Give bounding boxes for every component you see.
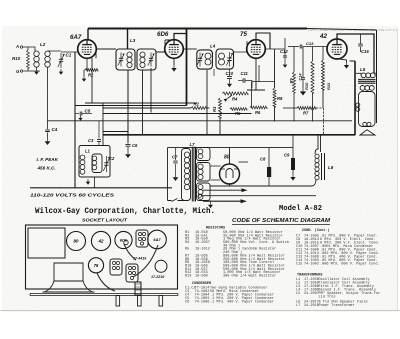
svg-text:C11: C11	[241, 71, 249, 76]
svg-text:C7: C7	[172, 155, 178, 160]
svg-text:TRANSFORMERS: TRANSFORMERS	[297, 273, 323, 277]
svg-text:R1: R1	[88, 73, 94, 78]
svg-text:L1: L1	[85, 149, 91, 154]
svg-text:C3: C3	[88, 138, 94, 143]
svg-text:456 K.C.: 456 K.C.	[37, 166, 56, 171]
svg-text:R2: R2	[194, 102, 200, 107]
svg-text:18-1012: 18-1012	[195, 248, 210, 252]
svg-text:COND. (Cont.): COND. (Cont.)	[302, 228, 330, 233]
svg-text:R13: R13	[185, 275, 191, 279]
svg-text:R7: R7	[303, 111, 309, 116]
svg-text:C6: C6	[185, 301, 189, 305]
svg-text:L5: L5	[360, 67, 366, 72]
svg-text:C16: C16	[361, 49, 369, 54]
svg-text:SOCKET LAYOUT: SOCKET LAYOUT	[82, 218, 128, 223]
svg-text:L6: L6	[328, 165, 334, 170]
svg-text:C13: C13	[306, 41, 314, 46]
svg-text:18-2057: 18-2057	[195, 241, 210, 245]
svg-text:300 Ohm 1/4 Watt Resistor: 300 Ohm 1/4 Watt Resistor	[223, 274, 276, 279]
svg-text:Wilcox-Gay Corporation, Charlo: Wilcox-Gay Corporation, Charlotte, Mich.	[35, 208, 215, 216]
svg-text:R11: R11	[326, 82, 331, 90]
svg-text:24-2007: 24-2007	[304, 292, 319, 296]
svg-text:R10: R10	[12, 56, 21, 61]
svg-text:C15: C15	[296, 263, 302, 267]
svg-text:42: 42	[98, 239, 104, 244]
svg-text:80: 80	[74, 239, 79, 244]
svg-text:C6: C6	[132, 143, 138, 148]
svg-text:80: 80	[224, 155, 230, 161]
svg-text:6D6: 6D6	[157, 31, 169, 38]
svg-text:Lid Trns: Lid Trns	[319, 294, 336, 299]
svg-text:R4: R4	[185, 241, 189, 245]
svg-text:RESISTORS: RESISTORS	[206, 227, 226, 231]
svg-text:C1: C1	[66, 53, 72, 58]
svg-text:Power Transformer: Power Transformer	[319, 303, 355, 308]
svg-text:74-1006: 74-1006	[195, 301, 210, 305]
svg-text:R10: R10	[304, 82, 309, 90]
svg-text:A: A	[15, 44, 19, 49]
svg-text:L2: L2	[40, 42, 46, 47]
svg-text:75: 75	[94, 263, 99, 268]
svg-text:L7: L7	[296, 304, 300, 308]
svg-text:110-120 VOLTS 60 CYCLES: 110-120 VOLTS 60 CYCLES	[30, 193, 115, 198]
svg-text:I. F. PEAK: I. F. PEAK	[37, 157, 59, 162]
svg-text:R3: R3	[212, 106, 217, 112]
svg-text:24-2018: 24-2018	[304, 304, 319, 308]
svg-text:42: 42	[319, 33, 327, 40]
svg-text:R9: R9	[289, 78, 294, 84]
svg-text:L3: L3	[130, 38, 136, 43]
svg-text:C9: C9	[284, 153, 290, 158]
svg-text:.1 Mfd. 400 V. Paper Condenser: .1 Mfd. 400 V. Paper Condenser	[210, 300, 274, 305]
svg-text:R5: R5	[185, 248, 189, 252]
svg-text:C5: C5	[85, 109, 91, 114]
svg-text:C14: C14	[299, 73, 303, 81]
svg-text:C2: C2	[109, 156, 115, 161]
svg-text:R6: R6	[255, 110, 261, 115]
svg-text:C4: C4	[52, 127, 58, 132]
svg-text:6A7: 6A7	[153, 237, 161, 242]
svg-text:L5: L5	[296, 292, 300, 296]
svg-text:R8: R8	[277, 96, 283, 101]
svg-text:C8: C8	[260, 157, 266, 162]
svg-text:75: 75	[240, 31, 247, 38]
svg-text:L7: L7	[190, 142, 196, 147]
svg-text:6A7: 6A7	[70, 34, 82, 41]
svg-text:R4: R4	[232, 97, 238, 102]
svg-text:CODE OF SCHEMATIC DIAGRAM: CODE OF SCHEMATIC DIAGRAM	[232, 218, 331, 224]
svg-text:C12: C12	[280, 49, 288, 54]
svg-text:Model A-82: Model A-82	[279, 205, 322, 213]
svg-text:18-560: 18-560	[195, 275, 208, 279]
svg-text:74-1002: 74-1002	[304, 263, 319, 267]
svg-text:L4: L4	[210, 44, 216, 49]
svg-text:17-2219: 17-2219	[151, 275, 164, 279]
svg-text:.006 Mfd. 600 V. Paper Cond.: .006 Mfd. 600 V. Paper Cond.	[320, 262, 380, 267]
